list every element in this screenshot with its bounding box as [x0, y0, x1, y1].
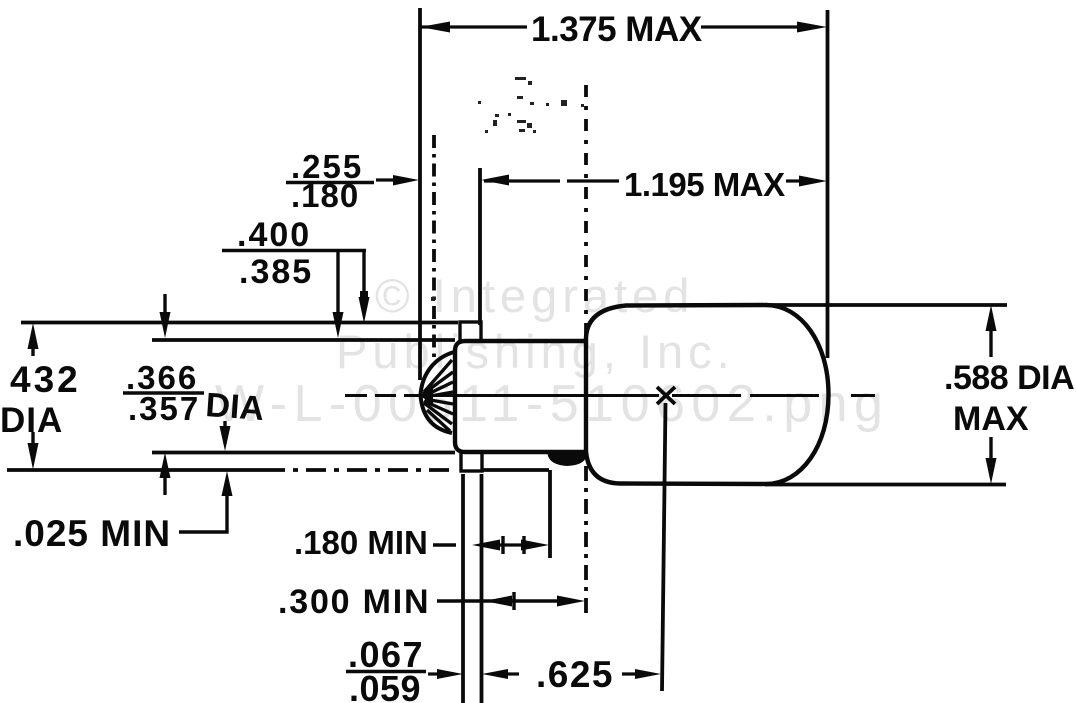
line C pin-bottom extension dash-dot part [265, 468, 456, 472]
svg-text:MAX: MAX [953, 400, 1029, 438]
cone tip fan [421, 352, 455, 433]
svg-text:.059: .059 [349, 668, 421, 703]
svg-text:.180: .180 [291, 177, 359, 214]
line C pin-bottom extension y=470 solid part [7, 468, 265, 472]
svg-text:432: 432 [10, 359, 81, 400]
scan speckles [431, 77, 584, 301]
vertical below pin left x=463 [461, 474, 465, 703]
right extension vertical x=827.5 [826, 10, 830, 358]
svg-text:Publishing, Inc.: Publishing, Inc. [336, 325, 735, 378]
dimension .588 DIA MAX [989, 327, 992, 357]
svg-text:.625: .625 [536, 654, 614, 695]
short line pin to contact y=470 [483, 468, 549, 472]
centerline [345, 394, 875, 397]
svg-text:.385: .385 [239, 253, 313, 291]
svg-text:1.195 MAX: 1.195 MAX [624, 166, 785, 203]
extension line pin-plane vertical x=480 [478, 168, 482, 325]
bulb top extension right y=305 [770, 303, 1007, 307]
top pin [460, 322, 481, 341]
bulb bottom extension right y=484.5 [765, 483, 1006, 487]
line A pin-top extension y=322.5 [21, 321, 458, 325]
svg-text:.300 MIN: .300 MIN [278, 583, 430, 621]
svg-text:1.375 MAX: 1.375 MAX [531, 10, 703, 49]
svg-text:© Integrated: © Integrated [375, 269, 694, 322]
dimension 1.375 MAX [421, 25, 801, 28]
vertical from light-center x=666 [662, 403, 666, 691]
solder contact bump [547, 451, 586, 466]
svg-text:.400: .400 [237, 216, 311, 254]
cone apex [420, 388, 433, 404]
vertical contact extension x=550 [548, 470, 552, 558]
lamp sleeve (base) [455, 341, 585, 452]
line D sleeve-bottom extension y=452.5 [152, 451, 455, 455]
dimension 1.195 MAX [484, 179, 801, 182]
bottom pin [461, 452, 482, 471]
svg-text:.180 MIN: .180 MIN [294, 524, 428, 561]
dimension .432 DIA [31, 344, 34, 356]
dash-dot vertical x=434 [432, 135, 436, 365]
bulb outline [586, 305, 829, 484]
svg-text:.025 MIN: .025 MIN [13, 513, 171, 554]
svg-text:.588 DIA: .588 DIA [944, 359, 1074, 397]
dashed bulb-edge extension below x=586 [584, 466, 588, 614]
svg-text:.357: .357 [128, 390, 200, 427]
extension line tip-plane vertical x=420 [418, 8, 422, 380]
line B sleeve-top extension y=340 [152, 338, 455, 342]
svg-text:W-L-00511-510602.png: W-L-00511-510602.png [215, 375, 889, 433]
light center mark X [657, 387, 675, 404]
vertical below pin right x=481.5 [480, 474, 484, 703]
svg-text:DIA: DIA [204, 386, 265, 428]
dashed bulb-edge extension above x=586 [584, 85, 588, 336]
